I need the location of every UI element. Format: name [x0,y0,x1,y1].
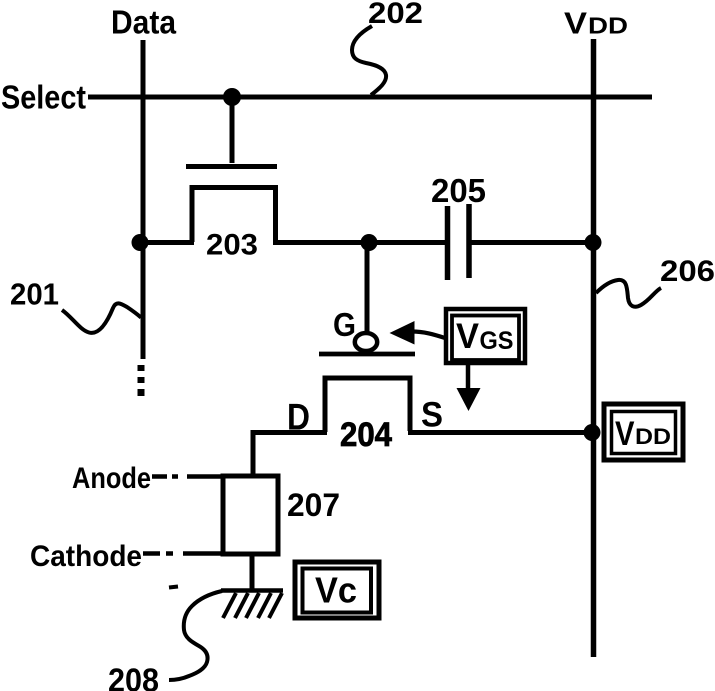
ground symbol [221,591,283,619]
junction dot rail/row [585,234,602,251]
svg-text:V: V [615,415,635,453]
svg-text:206: 206 [660,255,715,288]
svg-text:DD: DD [635,424,671,449]
svg-text:Select: Select [1,79,86,116]
junction dot select/gate [223,88,241,106]
svg-text:Cathode: Cathode [30,540,142,573]
capacitor C 205 right plate [466,204,472,278]
wire leader squiggle 202 [352,26,386,95]
wire row right segment to rail [469,240,593,245]
svg-text:V: V [456,317,480,356]
svg-text:207: 207 [287,487,340,523]
svg-text:S: S [421,396,443,435]
svg-text:203: 203 [206,229,258,262]
svg-text:Anode: Anode [72,462,151,495]
svg-text:Data: Data [111,4,177,41]
wire Select horizontal line [88,95,652,100]
wire gate node to gate circle [365,242,370,334]
wire VDD rail vertical [591,39,597,657]
stray dash mark [169,587,178,588]
wire cathode dashed lead [143,551,222,556]
wire leader squiggle 201 [62,303,141,333]
svg-text:Vc: Vc [315,570,357,611]
VDD callout box right [604,404,683,460]
wire Data vertical line [141,40,146,359]
OLED D 207 body [223,476,278,554]
wire row left segment [140,240,194,245]
svg-text:G: G [333,306,356,343]
wire drain horizontal to OLED [253,430,327,435]
Vc callout box [295,562,379,618]
wire leader squiggle 208 [169,591,222,680]
transistor Q 203 gate bar [186,164,277,169]
junction dot gate node [361,234,378,251]
svg-text:201: 201 [10,277,59,312]
junction dot rail/source [584,424,601,441]
svg-text:204: 204 [340,416,392,454]
wire gate stub of 203 [230,97,235,163]
VGS callout box [446,309,525,363]
capacitor C 205 left plate [445,206,451,280]
svg-text:205: 205 [431,172,486,209]
transistor Q 204 gate bar [319,352,415,357]
svg-text:202: 202 [368,0,423,30]
junction dot data/row [132,234,149,251]
transistor Q 204 gate contact circle [355,333,377,351]
arrow VGS to gate [390,321,446,345]
svg-text:DD: DD [588,13,628,39]
wire Data line continuation dots [138,365,145,396]
svg-text:GS: GS [480,327,514,355]
wire source line to rail [408,430,593,435]
wire drain drop to OLED anode [251,430,256,475]
transistor Q 203 channel [192,188,276,243]
svg-text:208: 208 [108,662,159,691]
transistor Q 204 channel [325,378,410,432]
svg-text:V: V [564,6,587,41]
wire anode dashed lead [152,474,224,479]
wire row middle segment to capacitor [273,240,446,245]
wire leader squiggle 206 [596,280,661,307]
wire cathode drop to ground [250,554,255,589]
arrow VGS down to source [457,363,481,411]
